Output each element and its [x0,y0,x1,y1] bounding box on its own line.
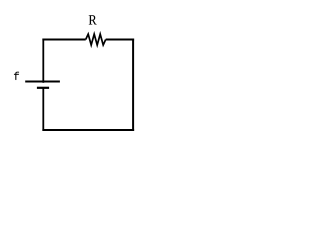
wire top-left segment [42,39,85,41]
wire left edge upper (top corner to battery) [42,39,44,83]
resistor R1 zigzag [86,34,106,45]
battery cell short plate (negative) [37,87,49,89]
label f (emf of cell) [14,72,19,80]
label R (resistor) [89,15,97,24]
wire bottom edge [42,129,134,131]
wire left edge lower (battery to bottom corner) [42,88,44,131]
battery cell long plate (positive) [25,81,60,83]
wire right edge [132,39,134,132]
wire top-right segment [106,39,134,41]
